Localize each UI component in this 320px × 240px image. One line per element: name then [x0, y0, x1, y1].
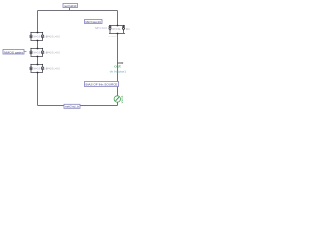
- svg-text:netVdd10: netVdd10: [64, 4, 77, 8]
- svg-text:NMOS gates: NMOS gates: [4, 50, 23, 54]
- svg-text:netGnd_b: netGnd_b: [65, 105, 79, 109]
- svg-text:vb InSpice1: vb InSpice1: [110, 69, 127, 73]
- svg-text:SP C b=c: SP C b=c: [95, 26, 108, 30]
- svg-text:MirrCasc10: MirrCasc10: [85, 20, 101, 24]
- svg-text:out: out: [114, 64, 120, 68]
- svg-text:W=0.6 L=0.6: W=0.6 L=0.6: [46, 67, 60, 70]
- svg-text:vsin1: vsin1: [120, 95, 124, 103]
- svg-text:W=0.6 L=0.6: W=0.6 L=0.6: [46, 51, 60, 54]
- svg-text:W=0.6 L=0.6: W=0.6 L=0.6: [46, 35, 60, 38]
- svg-text:sc mos2: sc mos2: [109, 36, 118, 38]
- svg-text:W=0.6L: W=0.6L: [112, 28, 121, 31]
- svg-text:BIAS OF INn SOURCE: BIAS OF INn SOURCE: [86, 83, 118, 87]
- svg-text:W=2: W=2: [126, 28, 130, 31]
